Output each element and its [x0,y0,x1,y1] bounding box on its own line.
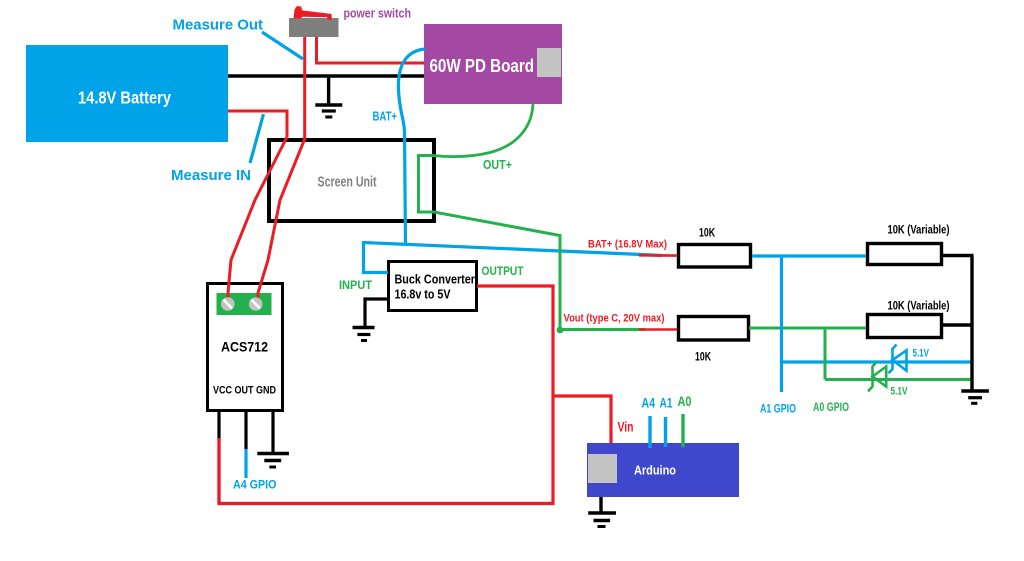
svg-text:5.1V: 5.1V [913,348,930,360]
ground ACS712 GND pin [257,412,289,467]
svg-text:OUT+: OUT+ [483,157,512,172]
ground right rail [961,391,989,403]
wire arduino pin A0 (green) [681,414,684,448]
zener diode D1 5.1V (blue) [889,345,907,374]
resistor R1 10K [679,228,751,268]
node junction Vout [557,327,564,334]
zener diode D2 5.1V (green) [868,362,886,391]
svg-text:5.1V: 5.1V [891,386,908,398]
wire ACS712 VCC pin (black) [217,412,220,440]
svg-text:10K: 10K [699,228,716,240]
svg-text:Measure Out: Measure Out [173,17,264,34]
svg-text:14.8V Battery: 14.8V Battery [78,88,171,108]
wire BAT+ from PD board curve (blue) [398,49,425,245]
svg-text:BAT+: BAT+ [373,110,398,124]
wire Vin branch (red) [553,396,611,443]
arduino U5 [587,443,739,497]
resistor R2 10K [679,317,749,364]
buck converter U3 [389,262,477,311]
svg-text:A1 GPIO: A1 GPIO [760,402,796,416]
wire buck input branch (blue) [364,241,389,273]
ground arduino [588,497,616,527]
wire R4 right to rail (black) [942,323,974,326]
wire red overlap segment at R1 [639,254,677,257]
wire R3 right to rail (black) [942,254,974,257]
wire OUT+ loop through screen unit (green) [419,156,561,331]
wire red overlap segment at R2 [639,328,677,331]
svg-text:Arduino: Arduino [634,464,676,478]
svg-text:Vout (type C, 20V max): Vout (type C, 20V max) [564,313,665,325]
svg-text:A0: A0 [678,393,692,409]
wire zener rail green horizontal [825,378,972,381]
wire OUT+ curve from PD board (green) [433,104,533,157]
60W PD board U2 [424,24,562,104]
wire Vout to R2 (green) [560,328,645,331]
svg-text:A0 GPIO: A0 GPIO [813,400,849,414]
current sensor U4 ACS712 [208,284,283,411]
svg-text:power switch: power switch [344,7,412,21]
wire switch pin1 to ACS712 screw2 (red) [258,37,305,300]
ACS712 screw terminal 2 [249,297,263,311]
svg-text:10K (Variable): 10K (Variable) [888,299,950,313]
svg-text:ACS712: ACS712 [221,339,268,355]
screen unit module [269,140,434,221]
svg-text:10K: 10K [695,352,712,364]
wire switch pin2 to PD board (red) [317,37,425,63]
wire R2 to R4 (green) [749,327,866,330]
wire A0 GPIO vertical (green) [824,328,827,380]
wire R1 to R3 (blue) [752,254,866,257]
svg-text:10K (Variable): 10K (Variable) [888,223,950,237]
battery B1 14.8V [26,45,228,142]
wire buck output to Vin and ACS VCC (red) [219,286,553,504]
svg-text:A4: A4 [642,395,656,411]
wire battery+ to PD board (black) [228,74,424,77]
callout line Measure Out [262,32,303,59]
ground buck converter [353,299,389,341]
svg-text:VCC OUT GND: VCC OUT GND [213,385,276,397]
svg-text:A4 GPIO: A4 GPIO [233,478,277,492]
svg-text:Measure IN: Measure IN [171,167,251,184]
wire A1 GPIO vertical (blue) [780,256,783,392]
wire arduino pin A1 (blue) [664,417,667,447]
svg-text:Buck Converter: Buck Converter [395,272,476,287]
power switch SW1 body [289,18,339,37]
wire zener rail blue horizontal [782,360,973,363]
wire arduino pin A4 (blue) [648,416,651,448]
ACS712 screw terminal 1 [221,297,235,311]
svg-text:OUTPUT: OUTPUT [482,266,524,278]
power switch SW1 lever [294,6,332,20]
svg-text:16.8v to 5V: 16.8v to 5V [395,287,451,302]
callout line Measure IN [250,114,264,163]
svg-text:A1: A1 [660,395,673,411]
wire measure node to ACS712 screw1 (red) [228,137,287,300]
wire ACS712 OUT to A4 GPIO (blue) [244,449,247,478]
potentiometer R3 10K variable [868,223,950,265]
svg-text:INPUT: INPUT [339,280,372,292]
svg-text:Screen Unit: Screen Unit [318,175,377,191]
potentiometer R4 10K variable [868,299,950,338]
wire ACS VCC red drop [217,438,220,503]
svg-text:60W PD Board: 60W PD Board [430,55,535,76]
svg-text:BAT+ (16.8V Max): BAT+ (16.8V Max) [588,239,667,251]
svg-text:Vin: Vin [618,420,634,435]
wire ACS712 OUT pin (black) [244,412,247,449]
wire right rail vertical (black) [970,256,973,391]
wire battery- to measure node (red) [228,111,287,137]
ground main [315,76,342,117]
wire BAT+ horizontal run to R1 (blue) [364,243,663,256]
